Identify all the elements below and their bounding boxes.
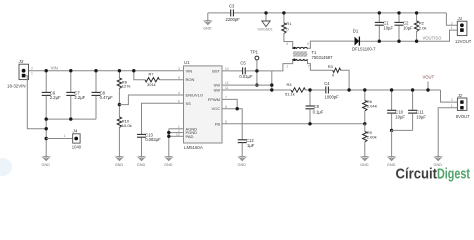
svg-text:2200pF: 2200pF [226,17,241,22]
svg-text:TP1: TP1 [250,50,258,55]
svg-text:LM5160A: LM5160A [184,145,203,150]
ground input [42,156,51,167]
svg-text:R3: R3 [328,64,334,69]
svg-text:FB: FB [215,121,220,126]
svg-text:1: 1 [286,65,288,69]
capacitor C1 [375,11,394,43]
svg-text:7: 7 [308,65,310,69]
ground J2 [434,156,443,167]
svg-text:VCC: VCC [212,106,221,111]
transformer T1 [286,42,333,68]
ground U1 [164,156,173,167]
resistor R7 [132,69,183,87]
resistor R6 [363,88,378,125]
wire SS [142,103,184,134]
svg-text:2.2µF: 2.2µF [74,95,85,100]
svg-text:0.47µF: 0.47µF [100,95,114,100]
ground top-left [203,20,212,30]
wire top rail to J1 pin2 [446,13,457,25]
svg-text:J3: J3 [18,59,24,64]
junction R3 bottom [347,88,350,91]
junction dots input section [45,69,98,140]
wire transformer pin6 to D1 [308,41,355,48]
wire transformer pin1 to SW [272,59,293,71]
wire FB rail [222,123,365,125]
svg-text:R1: R1 [286,21,292,26]
svg-text:11: 11 [225,86,229,90]
svg-text:2.00k: 2.00k [367,135,377,140]
capacitor C6 [42,71,61,119]
resistor R3 [328,64,349,90]
svg-text:0.1µF: 0.1µF [313,110,324,115]
svg-text:301k: 301k [147,82,156,87]
capacitor C8 [92,71,114,119]
svg-text:2: 2 [31,67,33,71]
svg-text:127k: 127k [122,84,131,89]
svg-text:GND: GND [203,27,212,31]
faint blue smudge bottom-left [0,158,12,176]
svg-text:D1: D1 [353,28,359,33]
resistor R2 [414,11,426,43]
svg-text:3: 3 [178,67,180,71]
ground C13 [137,156,146,167]
svg-text:VIN: VIN [186,68,193,73]
svg-text:1: 1 [451,104,453,108]
wire BST [222,70,242,72]
wire J2 pin1 to gnd [438,108,457,157]
svg-text:ISOGND1: ISOGND1 [258,28,273,32]
svg-text:18-32VIN: 18-32VIN [7,83,26,88]
wire input cap bottom rail [46,118,96,120]
svg-text:9: 9 [178,76,180,80]
svg-text:10µF: 10µF [403,25,413,30]
capacitor C9 [306,88,324,125]
svg-text:6: 6 [178,99,180,103]
svg-text:6: 6 [307,42,309,46]
svg-text:0.082µF: 0.082µF [145,137,161,142]
svg-text:10µF: 10µF [416,114,426,119]
capacitor C2 [395,11,414,43]
svg-text:750314597: 750314597 [312,55,334,60]
svg-text:C9: C9 [314,104,320,109]
svg-text:BST: BST [212,69,220,74]
capacitor C10 [387,88,405,132]
node VOUT flag [423,75,435,92]
connector J2 [451,93,470,119]
svg-text:2: 2 [451,98,453,102]
CircuitDigest logo [396,167,471,183]
wire AGND/PGND/PAD bus [167,129,183,157]
svg-text:GND: GND [42,163,51,167]
svg-text:1040: 1040 [72,144,82,149]
svg-text:12VOUT: 12VOUT [455,39,472,44]
svg-text:DFLS1100-7: DFLS1100-7 [352,46,376,51]
svg-text:1µF: 1µF [247,143,255,148]
svg-text:J1: J1 [457,16,463,21]
wire J3 pin1 return [26,76,47,129]
ground ISOGND1 [258,11,273,31]
wire VIN rail [28,70,184,72]
svg-text:1000pF: 1000pF [325,95,340,100]
svg-text:0: 0 [332,73,335,78]
resistor R4 [285,82,325,97]
svg-text:10µF: 10µF [395,114,405,119]
svg-text:2.0k: 2.0k [419,25,427,30]
svg-text:C5: C5 [240,60,246,65]
svg-text:10.0k: 10.0k [122,123,132,128]
diode D1 [352,28,376,51]
svg-text:VOUTISO: VOUTISO [423,35,443,40]
svg-text:0.01µF: 0.01µF [239,74,253,79]
svg-text:Círcuit: Círcuit [396,167,438,183]
svg-text:R7: R7 [149,71,155,76]
wire input gnd vertical [45,119,47,156]
svg-text:J4: J4 [72,129,78,134]
svg-text:SS: SS [186,101,192,106]
svg-text:RON: RON [186,77,195,82]
resistor R8 [117,69,130,105]
top rail (ISOGND) [208,13,447,21]
svg-text:PAD: PAD [186,134,194,139]
wire C10/C11 bottom [392,129,413,131]
svg-text:EN/UVLO: EN/UVLO [186,93,204,98]
capacitor C12 [238,138,255,156]
svg-text:R4: R4 [287,82,293,87]
svg-text:C4: C4 [324,81,330,86]
svg-text:4: 4 [178,91,180,95]
wire VOUT to J2 pin2 [441,90,458,102]
svg-text:51.1k: 51.1k [285,92,295,97]
test point TP1 [250,50,258,87]
wire C10 gnd [391,130,393,156]
svg-text:Digest: Digest [437,167,470,183]
wire VCC [222,107,242,139]
svg-text:10µF: 10µF [383,25,393,30]
svg-text:2.2µF: 2.2µF [50,95,61,100]
ground C10 [387,156,396,167]
capacitor C5 [239,60,271,79]
wire SW pin12 [222,84,272,86]
svg-text:C3: C3 [229,4,235,9]
svg-text:2: 2 [451,21,453,25]
op-amp U1 LM5160A [176,60,229,150]
svg-text:GND: GND [137,163,146,167]
wire EN/UVLO [119,95,183,105]
connector J1 [451,16,472,44]
ground R9 [360,156,369,167]
svg-text:U1: U1 [184,60,190,65]
svg-text:GND: GND [387,163,396,167]
svg-text:0: 0 [286,26,289,31]
wire FPWM to VCC [222,99,237,108]
svg-text:GND: GND [360,163,369,167]
svg-text:VOUT: VOUT [423,75,435,80]
wire transformer pin7 to R3 [308,59,333,70]
svg-text:1: 1 [64,134,66,138]
capacitor C7 [66,71,85,119]
resistor R10 [117,103,131,156]
node VIN label [51,65,58,70]
connector J4 [46,129,82,150]
ground R10 [115,156,124,167]
svg-text:6.04K: 6.04K [367,103,378,108]
svg-text:1: 1 [451,26,453,30]
capacitor C4 [324,81,440,100]
resistor R1 [282,11,293,48]
capacitor C3 [226,4,241,22]
svg-text:1: 1 [31,72,33,76]
svg-text:J2: J2 [457,93,463,98]
svg-text:GND: GND [238,163,247,167]
svg-text:FPWM: FPWM [208,97,220,102]
ground C12 [238,156,247,167]
svg-text:8VOUT: 8VOUT [456,114,470,119]
capacitor C11 [408,88,426,130]
svg-text:GND: GND [164,163,173,167]
wire VOUTISO rail [360,30,457,41]
capacitor C13 [137,133,161,157]
svg-text:VIN: VIN [51,65,58,70]
svg-text:GND: GND [115,163,124,167]
connector J3 [7,59,33,89]
svg-text:SW: SW [214,87,221,92]
resistor R9 [363,124,377,157]
wire SW vertical link [270,71,273,92]
svg-text:4: 4 [286,42,288,46]
wire SW pin11 / SW-R4 rail [222,89,291,91]
